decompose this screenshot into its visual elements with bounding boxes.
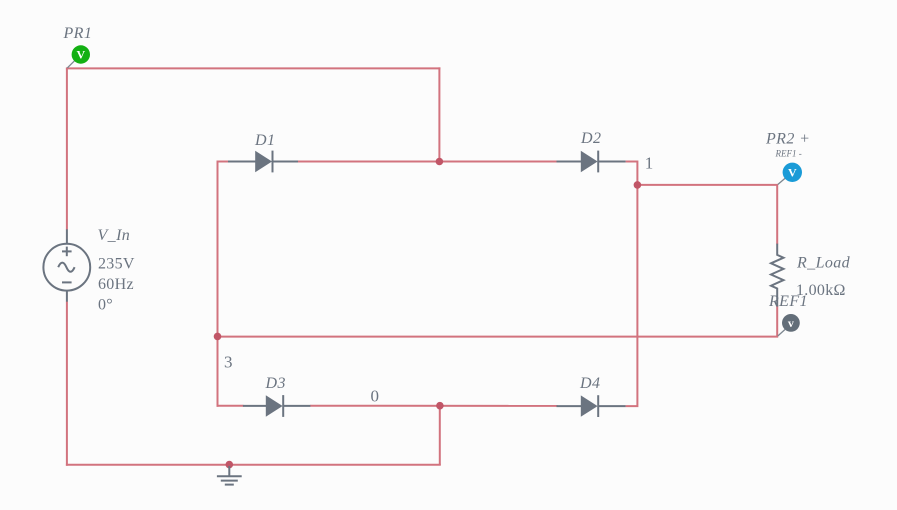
svg-text:REF1 -: REF1 -: [775, 149, 802, 159]
svg-text:D3: D3: [265, 375, 286, 392]
svg-text:0°: 0°: [98, 297, 113, 314]
wire D1 to D2: [298, 161, 558, 163]
junction node 3: [214, 333, 222, 341]
wire D2 right corner down to node 1 dot: [626, 162, 638, 185]
junction node 1: [634, 181, 642, 189]
wire top-left vertical (PR1 corner to V_In top): [66, 68, 68, 229]
wire V_In bottom to lower-left corner: [66, 302, 68, 466]
svg-text:0: 0: [371, 387, 380, 406]
diode D3: [243, 395, 311, 417]
wire D3 row left stub: [217, 405, 244, 407]
probe PR1: [67, 45, 90, 68]
diode D4: [557, 395, 626, 417]
junction ground: [226, 461, 234, 469]
svg-text:R_Load: R_Load: [796, 255, 851, 272]
svg-text:235V: 235V: [98, 256, 135, 273]
svg-text:D2: D2: [580, 130, 601, 147]
svg-text:REF1: REF1: [768, 293, 808, 310]
junction node at D1-D2 row: [436, 158, 444, 166]
wire node3 vertical: [217, 161, 219, 407]
svg-text:V: V: [788, 166, 797, 180]
svg-text:1: 1: [645, 154, 654, 173]
wire vertical from node0 down to bottom: [439, 406, 441, 465]
wire D3 to D4: [310, 405, 557, 407]
ground: [217, 466, 242, 485]
svg-text:V_In: V_In: [98, 227, 131, 244]
svg-text:PR2 +: PR2 +: [765, 131, 810, 148]
svg-text:3: 3: [224, 353, 233, 372]
resistor R_Load: [771, 244, 784, 307]
wire node1 dot right to R_Load top corner: [637, 185, 777, 244]
wire R_Load bottom to corner and back left to node 3: [217, 306, 778, 337]
wire top horizontal: [66, 67, 441, 69]
svg-text:PR1: PR1: [63, 25, 93, 42]
wire D4 right corner up to node 1: [626, 185, 638, 406]
wire D1 row left stub: [218, 161, 229, 163]
diode D1: [228, 151, 298, 173]
junction node 0: [436, 402, 444, 410]
probe REF1: [778, 314, 800, 336]
svg-text:D4: D4: [579, 375, 600, 392]
diode D2: [557, 151, 626, 173]
probe PR2: [778, 163, 802, 185]
ac source V_In: [43, 229, 90, 301]
wire bottom horizontal: [66, 464, 441, 466]
svg-text:V: V: [76, 48, 85, 62]
wire vertical into D1-D2 row: [438, 67, 440, 161]
svg-text:v: v: [788, 316, 794, 330]
svg-text:D1: D1: [254, 132, 275, 149]
svg-text:60Hz: 60Hz: [98, 276, 134, 293]
